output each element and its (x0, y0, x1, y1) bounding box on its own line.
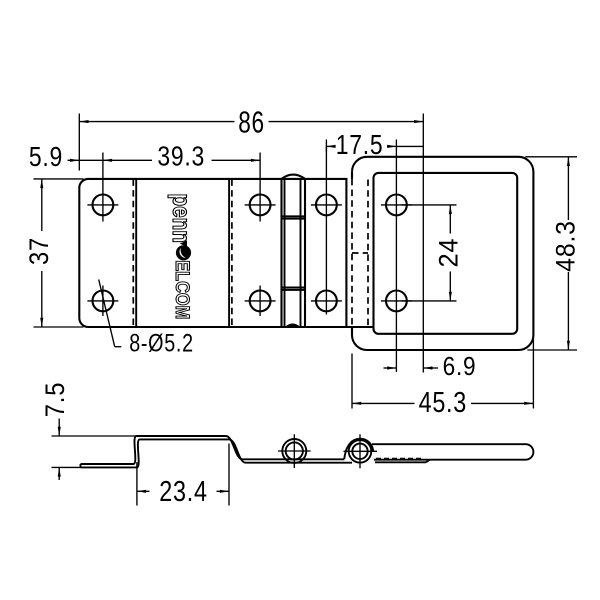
pan bend line (dashed) (367, 180, 369, 327)
bend line (solid) left (135, 179, 137, 326)
hole callout 8-Ø5.2 (99, 280, 194, 358)
svg-text:23.4: 23.4 (159, 475, 207, 508)
hole A2 (Ø5.2) (93, 291, 114, 312)
dimension 7.5 (offset height) (41, 382, 137, 480)
center line col1 (102, 153, 104, 222)
hinge pin curl (leaf A) side view (278, 434, 311, 468)
dimension 37 (leaf width) (25, 179, 84, 327)
dimension 17.5 (hole spacing) (326, 130, 423, 161)
svg-text:48.3: 48.3 (551, 220, 580, 272)
penn elcom logo (167, 194, 195, 320)
dimension 23.4 (offset length) (137, 444, 229, 508)
hole A1 (Ø5.2) (93, 195, 114, 216)
svg-text:39.3: 39.3 (157, 141, 205, 172)
dimension 39.3 (hole spacing) (103, 141, 260, 172)
leaf A side profile (joggle) (81, 436, 353, 467)
knuckle divider lower (282, 287, 306, 289)
hole D1 (Ø5.2) (386, 195, 407, 216)
knuckle divider upper (282, 215, 306, 217)
hole D2 (Ø5.2) (386, 291, 407, 312)
pan bend connector (dashed) (352, 252, 368, 254)
hinge pin curl (leaf B) side view (344, 434, 378, 468)
hole C2 (Ø5.2) (316, 291, 337, 312)
center line col4 (395, 140, 397, 373)
leaf A bottom edge continuation (346, 326, 373, 328)
pan left edge hidden (dashed) (351, 179, 353, 327)
dimension 48.3 (pan height) (525, 157, 580, 350)
center line col2 (259, 153, 261, 222)
hinge leaf A outline (top view) (79, 179, 346, 327)
hinge leaf B pan outline (top view) (352, 157, 533, 350)
svg-text:6.9: 6.9 (443, 353, 477, 382)
dimension 6.9 (hole to edge) (384, 353, 477, 382)
pan inner recess outline (374, 173, 518, 334)
pan top-left corner (352, 157, 367, 172)
center line col3 (325, 140, 327, 315)
dimension 45.3 (pan width) (352, 337, 533, 418)
bend line (dashed) left (132, 179, 134, 326)
svg-text:5.9: 5.9 (29, 142, 63, 173)
leaf B pan side view strip (372, 444, 533, 460)
bend line (solid) right (228, 179, 230, 326)
hole B1 (Ø5.2) (250, 195, 271, 216)
svg-text:ELCOM: ELCOM (172, 260, 194, 319)
svg-text:45.3: 45.3 (419, 386, 467, 419)
svg-text:17.5: 17.5 (336, 130, 384, 161)
hole B2 (Ø5.2) (250, 291, 271, 312)
dimension 5.9 (edge to hole) (29, 142, 103, 173)
hinge barrel / knuckle (282, 175, 306, 327)
svg-text:24: 24 (433, 238, 464, 268)
hole C1 (Ø5.2) (316, 195, 337, 216)
dimension 86 (overall length) (79, 104, 423, 373)
bend line (dashed) right (231, 179, 233, 326)
svg-text:86: 86 (238, 104, 264, 139)
leaf A hidden tail (side view) (375, 459, 430, 463)
svg-text:7.5: 7.5 (41, 382, 71, 417)
dimension 24 (pan hole spacing) (402, 205, 464, 301)
svg-text:37: 37 (25, 237, 55, 265)
svg-text:penn: penn (167, 194, 195, 243)
svg-text:8-Ø5.2: 8-Ø5.2 (129, 329, 194, 357)
